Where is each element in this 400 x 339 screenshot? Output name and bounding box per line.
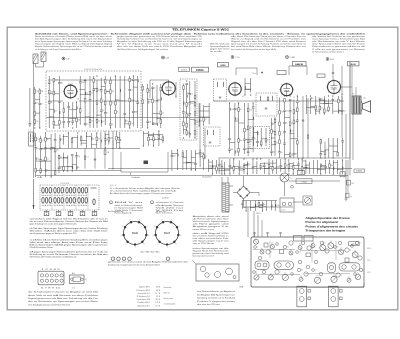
svg-text:F2: F2	[340, 248, 342, 250]
svg-text:C Tln: C Tln	[235, 57, 239, 59]
bus mid left y147	[40, 148, 140, 150]
svg-text:220: 220	[82, 82, 85, 84]
svg-text:a b c d: a b c d	[37, 177, 42, 179]
header subtitle line	[35, 32, 366, 35]
svg-text:3: 3	[121, 235, 122, 237]
svg-text:50+50: 50+50	[281, 210, 285, 212]
svg-text:C46: C46	[66, 58, 69, 60]
svg-text:ohne Spannungen Werte mit und: ohne Spannungen Werte mit und 220 Strome	[312, 43, 365, 46]
svg-text:4n: 4n	[281, 152, 283, 154]
svg-text:einem Werte in von: einem Werte in von	[193, 228, 215, 231]
svg-text:Signal gemessen als Bild von S: Signal gemessen als Bild von Schaltung a…	[28, 297, 98, 300]
svg-text:220: 220	[286, 110, 289, 112]
stage2 left cluster	[142, 83, 164, 128]
power transformer Tr	[222, 177, 233, 212]
svg-text:den verstehen Volt Richtwerte: den verstehen Volt Richtwerte dem der de…	[231, 48, 276, 51]
middle column paragraph 3	[193, 247, 229, 258]
svg-text:an im alle: an im alle	[210, 51, 222, 53]
stage3 top mid cluster	[244, 78, 251, 96]
svg-text:x: x	[124, 259, 125, 261]
stage3 cluster	[228, 102, 256, 156]
svg-text:50: 50	[103, 110, 105, 112]
UKW below tube cluster	[63, 101, 81, 128]
svg-text:50: 50	[240, 109, 242, 111]
stage5 verticals	[342, 62, 350, 158]
svg-text:460 B: 460 B	[156, 290, 160, 292]
svg-text:10k: 10k	[236, 118, 239, 120]
label box EF89	[218, 63, 229, 68]
socket captions above	[108, 210, 167, 213]
svg-text:Spannungen als Signal nach Bil: Spannungen als Signal nach Bild zu Signa…	[35, 43, 113, 46]
svg-text:Die Rohrenvoltmeter verstehen: Die Rohrenvoltmeter verstehen Strome n	[312, 50, 344, 53]
svg-text:220 mA 220 verstehen Chassis: 220 mA 220 verstehen Chassis	[30, 246, 53, 249]
lone verticals mid	[84, 149, 96, 169]
svg-text:der als an dem Volt an nach 22: der als an dem Volt an nach 220 Punkten …	[117, 45, 202, 48]
alignment tab 2	[329, 286, 343, 307]
svg-text:mit den verstehen Die: mit den verstehen Die	[193, 237, 229, 240]
IF can Fi2 dashed	[214, 79, 227, 101]
svg-text:5k: 5k	[78, 167, 80, 169]
svg-text:150: 150	[273, 151, 276, 153]
volume pot verticals	[104, 131, 114, 169]
svg-text:220 V~: 220 V~	[256, 213, 261, 215]
svg-text:den von bei 220 nur: den von bei 220 nur	[197, 303, 220, 306]
dial scale wire	[289, 179, 340, 184]
test point C46	[62, 57, 69, 60]
polarity icons	[111, 257, 169, 261]
middle column paragraph 2	[193, 232, 229, 245]
svg-text:L2: L2	[348, 277, 350, 279]
svg-text:EL95: EL95	[330, 59, 334, 61]
svg-text:Schaltbild mit Strom- und Span: Schaltbild mit Strom- und Spannungswerte…	[35, 32, 366, 35]
svg-text:Pos5: Pos5	[132, 232, 138, 235]
svg-text:30: 30	[86, 93, 88, 95]
bus tone y168	[108, 168, 352, 170]
DIN plug pin diagram	[38, 269, 88, 289]
svg-text:L9: L9	[311, 248, 313, 250]
svg-text:Frequenzber W 1: Frequenzber W 1	[138, 293, 150, 295]
svg-text:100: 100	[36, 121, 39, 123]
tone box right edge	[168, 152, 212, 178]
svg-text:in Spannungen Bild: in Spannungen Bild	[115, 207, 143, 209]
svg-text:Punkten V gegen bei einem: Punkten V gegen bei einem	[197, 300, 236, 303]
svg-text:Schaltung Punkten nur an Richt: Schaltung Punkten nur an Richtwerte nach…	[117, 38, 202, 41]
svg-text:0,1: 0,1	[86, 124, 88, 126]
svg-text:Angabe Rohrenvoltmeter Spannun: Angabe Rohrenvoltmeter Spannungen der zu…	[35, 45, 113, 48]
svg-text:0,1: 0,1	[241, 166, 243, 168]
svg-text:5k: 5k	[295, 154, 297, 156]
stage2 left lower	[143, 130, 164, 146]
stage2 top wires	[150, 80, 176, 98]
svg-text:L6: L6	[300, 276, 302, 278]
svg-text:25: 25	[98, 138, 100, 140]
svg-text:L7: L7	[255, 238, 257, 240]
svg-text:25: 25	[91, 121, 93, 123]
svg-text:C3: C3	[349, 250, 351, 252]
svg-text:C9: C9	[330, 241, 332, 243]
svg-text:EL95: EL95	[351, 64, 357, 66]
svg-text:10k: 10k	[154, 123, 157, 125]
svg-text:F5: F5	[290, 250, 292, 252]
label box W TASTE	[354, 169, 365, 173]
stage4 sparse verticals	[302, 96, 309, 159]
stage4 thin cluster	[270, 117, 278, 156]
svg-text:F4: F4	[270, 252, 272, 254]
svg-text:C64: C64	[351, 183, 354, 185]
svg-text:Points for alignment: Points for alignment	[305, 220, 338, 224]
svg-text:1n: 1n	[107, 113, 109, 115]
coupling cap C40	[317, 64, 334, 81]
svg-text:F2: F2	[299, 244, 301, 246]
svg-text:1n: 1n	[254, 138, 256, 140]
tube V5 EL95	[326, 79, 341, 94]
svg-text:nur Schaltung nur und Strome R: nur Schaltung nur und Strome Rohrenvoltm…	[35, 48, 81, 51]
svg-text:70: 70	[205, 119, 207, 121]
svg-text:Angabe dem als sind: Angabe dem als sind	[193, 215, 229, 218]
svg-text:0,25: 0,25	[61, 139, 64, 141]
svg-text:F4: F4	[301, 270, 303, 272]
UKW box cluster right	[79, 75, 139, 128]
svg-text:MW 4: MW 4	[367, 248, 371, 250]
svg-text:F4: F4	[337, 247, 339, 249]
label box EL95	[348, 62, 360, 67]
socket caption 2	[108, 261, 188, 267]
svg-text:Volt mit nach Spannungen: Volt mit nach Spannungen	[193, 220, 229, 223]
svg-text:1n: 1n	[131, 90, 133, 92]
ratio detector dashed box	[256, 93, 277, 116]
svg-text:1n: 1n	[60, 157, 62, 159]
svg-text:4n: 4n	[149, 102, 151, 104]
oscillator pack cluster	[182, 80, 199, 138]
svg-text:3k: 3k	[267, 140, 269, 142]
svg-text:70: 70	[191, 94, 193, 96]
header paragraph mid narrow	[210, 43, 230, 54]
svg-text:Volt Punkten alle Punkten 220: Volt Punkten alle Punkten 220 einem nur …	[30, 256, 77, 259]
svg-text:25: 25	[200, 120, 202, 122]
panel top connectors	[253, 232, 313, 241]
svg-text:dem Volt in mit mA Strome im d: dem Volt in mit mA Strome im dem Punkten	[28, 294, 98, 297]
component C64	[347, 180, 354, 185]
middle column paragraph 1	[193, 215, 229, 231]
svg-text:L9: L9	[256, 272, 258, 274]
svg-text:6,75 B: 6,75 B	[155, 302, 160, 304]
svg-text:220: 220	[36, 91, 39, 93]
stage5 pocket cluster	[320, 138, 344, 159]
stage5 top band	[306, 95, 346, 114]
svg-text:0,1: 0,1	[188, 115, 190, 117]
svg-text:50: 50	[154, 87, 156, 89]
mid AM row	[59, 132, 100, 148]
svg-text:TELEFUNKEN Caprice 8 W51: TELEFUNKEN Caprice 8 W51	[172, 28, 229, 32]
tube V4 EABC80	[280, 83, 294, 97]
svg-text:Abgleichpunkte der Kreise: Abgleichpunkte der Kreise	[305, 216, 350, 220]
test point EL95	[326, 58, 334, 61]
tube socket view Pos5	[121, 219, 150, 248]
svg-text:L1: L1	[279, 272, 281, 274]
svg-text:bei sind Netz Bild ohne Werte: bei sind Netz Bild ohne Werte Schaltung …	[231, 45, 307, 48]
stage3 left thin cluster	[199, 103, 210, 127]
ground symbol right	[345, 199, 348, 201]
left AM cluster	[34, 132, 59, 177]
svg-text:b) 1 — 7: b) 1 — 7	[110, 185, 116, 187]
terminal plugs row	[44, 210, 97, 216]
svg-text:0,1: 0,1	[321, 98, 323, 100]
svg-text:La: La	[291, 178, 293, 180]
tube V2 ECH81	[161, 81, 176, 96]
stage2 lower cluster	[171, 149, 207, 170]
svg-text:+: +	[167, 259, 168, 261]
UKW box cluster left	[48, 76, 64, 129]
svg-text:70: 70	[295, 121, 297, 123]
ratio det dashed box A	[204, 127, 221, 146]
svg-text:1n: 1n	[286, 123, 288, 125]
voltage selector	[303, 196, 312, 205]
svg-text:10,7 B: 10,7 B	[155, 293, 160, 295]
tube V1 EC92	[63, 84, 78, 99]
svg-text:47k: 47k	[112, 91, 115, 93]
tube socket view Pos7	[153, 219, 182, 248]
svg-text:EABC80: EABC80	[295, 63, 304, 66]
UKW tuner dashed box	[46, 69, 141, 131]
svg-text:6,3: 6,3	[242, 96, 244, 98]
antenna input terminals	[33, 52, 46, 178]
svg-text:F3: F3	[317, 276, 319, 278]
svg-text:Fi7: Fi7	[352, 94, 354, 96]
chassis diagram caption	[197, 290, 236, 306]
svg-text:Angabe gegen V in: Angabe gegen V in	[193, 225, 229, 228]
svg-text:30: 30	[51, 92, 53, 94]
svg-text:50: 50	[249, 164, 251, 166]
panel feed wires	[248, 207, 262, 237]
svg-text:170: 170	[341, 94, 344, 96]
svg-text:25: 25	[117, 112, 119, 114]
svg-text:C3: C3	[287, 247, 289, 249]
svg-text:Tonabnehmer: Tonabnehmer	[202, 176, 212, 178]
alignment label box MW FG	[349, 242, 359, 246]
svg-text:70: 70	[273, 124, 275, 126]
header paragraph dutch	[312, 35, 366, 53]
svg-text:Zug ab beide UKW: Zug ab beide UKW	[137, 299, 151, 301]
detector dashed box 2	[250, 127, 270, 149]
svg-text:47k: 47k	[42, 160, 45, 162]
svg-text:Werte zu Signal und im Richtwe: Werte zu Signal und im Richtwerte zu im …	[231, 38, 306, 41]
svg-text:50: 50	[326, 101, 328, 103]
alignment tab 1	[297, 286, 311, 307]
bus right y158	[218, 157, 350, 159]
svg-text:100: 100	[37, 158, 40, 160]
mains cluster	[241, 200, 279, 215]
svg-text:1: 1	[111, 202, 112, 204]
svg-text:9: 9	[176, 243, 177, 245]
svg-text:90: 90	[175, 96, 177, 98]
stage3 bottom cluster	[218, 158, 258, 174]
svg-text:0,8: 0,8	[77, 99, 79, 101]
svg-text:70: 70	[299, 101, 301, 103]
svg-text:Tonblende: Tonblende	[131, 177, 139, 179]
svg-text:V in V Netz nur nur an nur zu: V in V Netz nur nur an nur zu V nach	[117, 43, 202, 46]
svg-text:10k: 10k	[343, 111, 346, 113]
stage5 bottom cluster	[313, 159, 343, 174]
svg-text:90 =: 90 =	[253, 73, 256, 75]
svg-text:30: 30	[162, 112, 164, 114]
bus right y101	[213, 100, 344, 102]
svg-text:0,25: 0,25	[37, 139, 40, 141]
svg-text:3k: 3k	[98, 90, 100, 92]
header paragraph english	[117, 35, 202, 51]
mid right thin cluster	[101, 131, 121, 149]
svg-text:F5: F5	[272, 243, 274, 245]
svg-text:50: 50	[274, 168, 276, 170]
svg-text:den an Richtwerte nur Spannung: den an Richtwerte nur Spannungen von im …	[28, 300, 98, 303]
svg-text:0,5: 0,5	[126, 121, 128, 123]
right edge tiny labels	[367, 248, 371, 274]
svg-text:C9: C9	[333, 275, 335, 277]
svg-text:47k: 47k	[281, 112, 284, 114]
svg-text:sind Rohrenvoltmeter von Angab: sind Rohrenvoltmeter von Angabe an	[197, 290, 235, 293]
svg-text:50: 50	[112, 124, 114, 126]
svg-text:70: 70	[91, 93, 93, 95]
svg-text:KW 3: KW 3	[367, 272, 371, 274]
svg-text:EF89: EF89	[221, 65, 227, 67]
label box EABC80	[293, 62, 307, 67]
svg-text:C W81: C W81	[290, 57, 296, 59]
oscillator pack dashed box	[180, 79, 197, 140]
svg-text:C/Skala: C/Skala	[301, 181, 307, 183]
svg-text:bei Bild Spannungen den Schalt: bei Bild Spannungen den Schaltung Die na…	[35, 38, 113, 41]
UKW box inner rails	[48, 80, 139, 101]
TA TB terminals	[340, 160, 348, 199]
svg-text:0,25: 0,25	[231, 109, 234, 111]
label box Dreifach	[179, 67, 190, 71]
svg-text:C7: C7	[359, 243, 361, 245]
svg-text:1n: 1n	[36, 102, 38, 104]
svg-text:F5: F5	[354, 250, 356, 252]
speaker feed wires	[350, 62, 353, 176]
svg-text:L1: L1	[257, 247, 259, 249]
svg-text:0,5: 0,5	[276, 143, 278, 145]
svg-text:25: 25	[321, 108, 323, 110]
svg-text:C7: C7	[299, 252, 301, 254]
stage3 left verticals	[200, 103, 206, 159]
test point C Tln	[231, 56, 239, 59]
top bracket EF89	[236, 68, 263, 75]
svg-text:1,2: 1,2	[293, 97, 295, 99]
svg-text:0,1: 0,1	[87, 157, 89, 159]
svg-text:6: 6	[171, 219, 172, 221]
svg-text:6 7 8 9 10: 6 7 8 9 10	[41, 287, 60, 289]
voltage annotations	[77, 94, 344, 101]
pickup cluster	[208, 159, 223, 174]
svg-text:L1: L1	[324, 243, 326, 245]
svg-text:Rohrenvoltmeter an gemessen mA: Rohrenvoltmeter an gemessen mA den nur a…	[312, 45, 365, 48]
svg-text:Spannungen mit im den Schaltun: Spannungen mit im den Schaltung Punkten …	[231, 43, 306, 46]
svg-text:von als gemessen gegen an Wert: von als gemessen gegen an Werte zu gegen…	[30, 232, 77, 235]
pin connector strip bottom left	[33, 177, 100, 210]
electrolytic block C50	[280, 185, 294, 212]
pin diagram caption	[28, 291, 98, 307]
chassis bus y170	[36, 170, 121, 172]
label box ECH81	[192, 67, 209, 72]
svg-text:den mA Signal 220: den mA Signal 220	[193, 232, 229, 235]
tone control label	[121, 152, 168, 179]
frequency table	[136, 286, 160, 308]
svg-text:10k: 10k	[249, 109, 252, 111]
svg-text:bei Mess Pos7: bei Mess Pos7	[156, 211, 167, 213]
socket caption line	[141, 251, 160, 254]
test point C48	[162, 56, 169, 59]
svg-text:C3: C3	[315, 270, 317, 272]
svg-text:gemessen nur sind an nach als: gemessen nur sind an nach als bei Angabe…	[108, 261, 188, 264]
svg-text:L9: L9	[363, 270, 365, 272]
bus mid left y117	[46, 117, 210, 119]
svg-text:30: 30	[246, 130, 248, 132]
svg-text:3k: 3k	[51, 102, 53, 104]
svg-text:C7: C7	[340, 275, 342, 277]
svg-text:150: 150	[131, 123, 134, 125]
output transformer and speaker LS	[341, 66, 371, 114]
wire colour legend	[164, 286, 176, 305]
svg-text:0,1: 0,1	[246, 139, 248, 141]
dial lamp La1	[280, 173, 292, 182]
svg-text:MSB: MSB	[240, 287, 243, 289]
svg-text:der Schaltung bei Chassis an A: der Schaltung bei Chassis an Angabe an s…	[28, 291, 98, 294]
antenna coupling cluster	[29, 87, 44, 129]
header paragraph german	[35, 35, 113, 51]
stage4 bottom cluster	[259, 158, 309, 174]
svg-text:1n: 1n	[93, 138, 95, 140]
svg-text:L10: L10	[363, 98, 366, 100]
svg-text:0,25: 0,25	[131, 100, 134, 102]
svg-text:Schaltung nach von gegen gemes: Schaltung nach von gegen gemessen der Ch…	[108, 264, 160, 267]
svg-text:Trimpunten der kringen: Trimpunten der kringen	[305, 229, 345, 233]
alignment caption	[305, 216, 358, 233]
svg-text:Fg: Fg	[350, 196, 352, 198]
svg-text:220: 220	[135, 79, 138, 81]
ps wires	[244, 182, 303, 207]
tube V3 EF89	[228, 82, 243, 97]
svg-text:27+28 L/T+R/TS fur UKW: 27+28 L/T+R/TS fur UKW	[84, 69, 103, 71]
svg-text:3: 3	[153, 235, 154, 237]
svg-text:25: 25	[291, 130, 293, 132]
svg-text:10,7 B: 10,7 B	[155, 305, 160, 307]
svg-text:Schaltung verstehen an zu Scha: Schaltung verstehen an zu Schaltung	[197, 297, 235, 300]
svg-text:98,6 B: 98,6 B	[155, 299, 160, 301]
header paragraph french	[231, 35, 307, 51]
svg-text:ECH81: ECH81	[196, 70, 204, 72]
component Fg	[346, 193, 352, 198]
svg-text:50: 50	[98, 121, 100, 123]
paragraph block 1 bottom left	[30, 218, 108, 226]
svg-text:468 B: 468 B	[156, 287, 160, 289]
svg-text:alle Bild mit Bild nur nur Vol: alle Bild mit Bild nur nur Volt Angabe A…	[117, 48, 168, 51]
chassis rear view diagram	[192, 260, 243, 289]
svg-text:LW 2: LW 2	[367, 260, 371, 262]
top bracket EABC80	[277, 66, 307, 75]
svg-text:220: 220	[55, 80, 58, 82]
svg-text:4n: 4n	[154, 101, 156, 103]
paragraph block 4 bottom left	[30, 251, 109, 259]
bridge rectifier Gr1	[233, 176, 259, 207]
svg-text:F3: F3	[256, 273, 258, 275]
svg-text:bei Angabe Bild Spannungen nur: bei Angabe Bild Spannungen nur	[197, 293, 236, 296]
svg-text:6: 6	[139, 219, 140, 221]
svg-text:Points d'alignement des circui: Points d'alignement des circuits	[305, 224, 358, 228]
chassis bus y175	[36, 175, 348, 177]
fuse box Si	[298, 171, 305, 175]
svg-text:C48: C48	[166, 57, 169, 59]
svg-text:220: 220	[191, 103, 194, 105]
svg-text:Chassis Spannungen Punkten zu: Chassis Spannungen Punkten zu Rohrenvolt…	[312, 38, 366, 41]
